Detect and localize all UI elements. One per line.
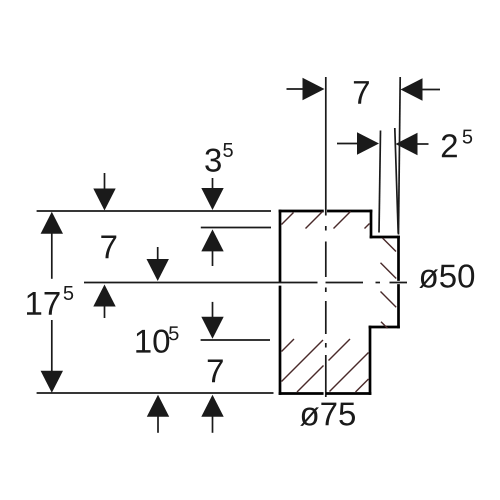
dimension 10.5: down arrow above centerline	[147, 247, 169, 281]
dimension 7 top: left arrow	[287, 78, 325, 100]
dimension 17.5: top up arrow	[41, 212, 63, 279]
step bottom edge	[370, 326, 399, 329]
label 10.5	[136, 326, 178, 353]
dimension 7 top: right arrow	[401, 78, 441, 100]
oblique extension line 2.5 left	[379, 131, 381, 233]
dimension 17.5: bottom down arrow	[41, 320, 63, 393]
dimension 7 bottom: up arrow below bottom edge	[201, 395, 223, 433]
dimension 7 left: up arrow below centerline	[93, 285, 115, 319]
dimension 2.5: right arrow	[396, 133, 429, 155]
extension line 7 bottom ref (y=340)	[201, 339, 270, 341]
upper inner vertical	[370, 211, 373, 237]
right edge with centerline gap	[397, 237, 400, 280]
dimension 7 bottom: down arrow above ref line	[201, 302, 223, 339]
dimension 7 left: down arrow above top edge	[93, 173, 115, 211]
dimension 3.5: down arrow	[201, 178, 223, 210]
extension line top edge (y=211)	[37, 210, 271, 212]
hatching bottom band	[282, 339, 369, 392]
label 7 (top)	[354, 81, 369, 104]
dimension 3.5: up arrow	[201, 229, 223, 266]
bottom edge with centerline gap	[327, 392, 370, 395]
part cross-section outline	[280, 211, 399, 394]
label 17.5	[27, 286, 73, 315]
label diameter 50	[419, 264, 474, 288]
lower inner vertical	[369, 327, 372, 394]
oblique extension line 2.5 right	[395, 128, 398, 234]
extension line bottom edge (y=393)	[37, 392, 274, 394]
vertical centerline (part axis, chain line)	[325, 77, 327, 397]
extension line 3.5 depth (y=227.5)	[201, 227, 271, 229]
horizontal centerline (spigot axis, chain line)	[84, 282, 407, 284]
dimension 2.5: left arrow	[337, 132, 379, 154]
step top edge	[371, 236, 399, 239]
oblique extension line right of top 7 dim	[399, 77, 401, 235]
label 7 (bottom)	[208, 360, 223, 383]
hatching spigot band (opposite direction)	[381, 238, 397, 328]
label diameter 75	[300, 403, 355, 426]
label 3.5	[205, 143, 233, 172]
left edge with centerline gap	[279, 287, 282, 394]
dimension 10.5: up arrow below bottom edge	[147, 395, 169, 433]
top edge with centerline gap	[280, 210, 322, 213]
label 2.5	[442, 130, 472, 158]
hatching top band	[282, 212, 370, 229]
label 7 (left)	[101, 236, 116, 259]
